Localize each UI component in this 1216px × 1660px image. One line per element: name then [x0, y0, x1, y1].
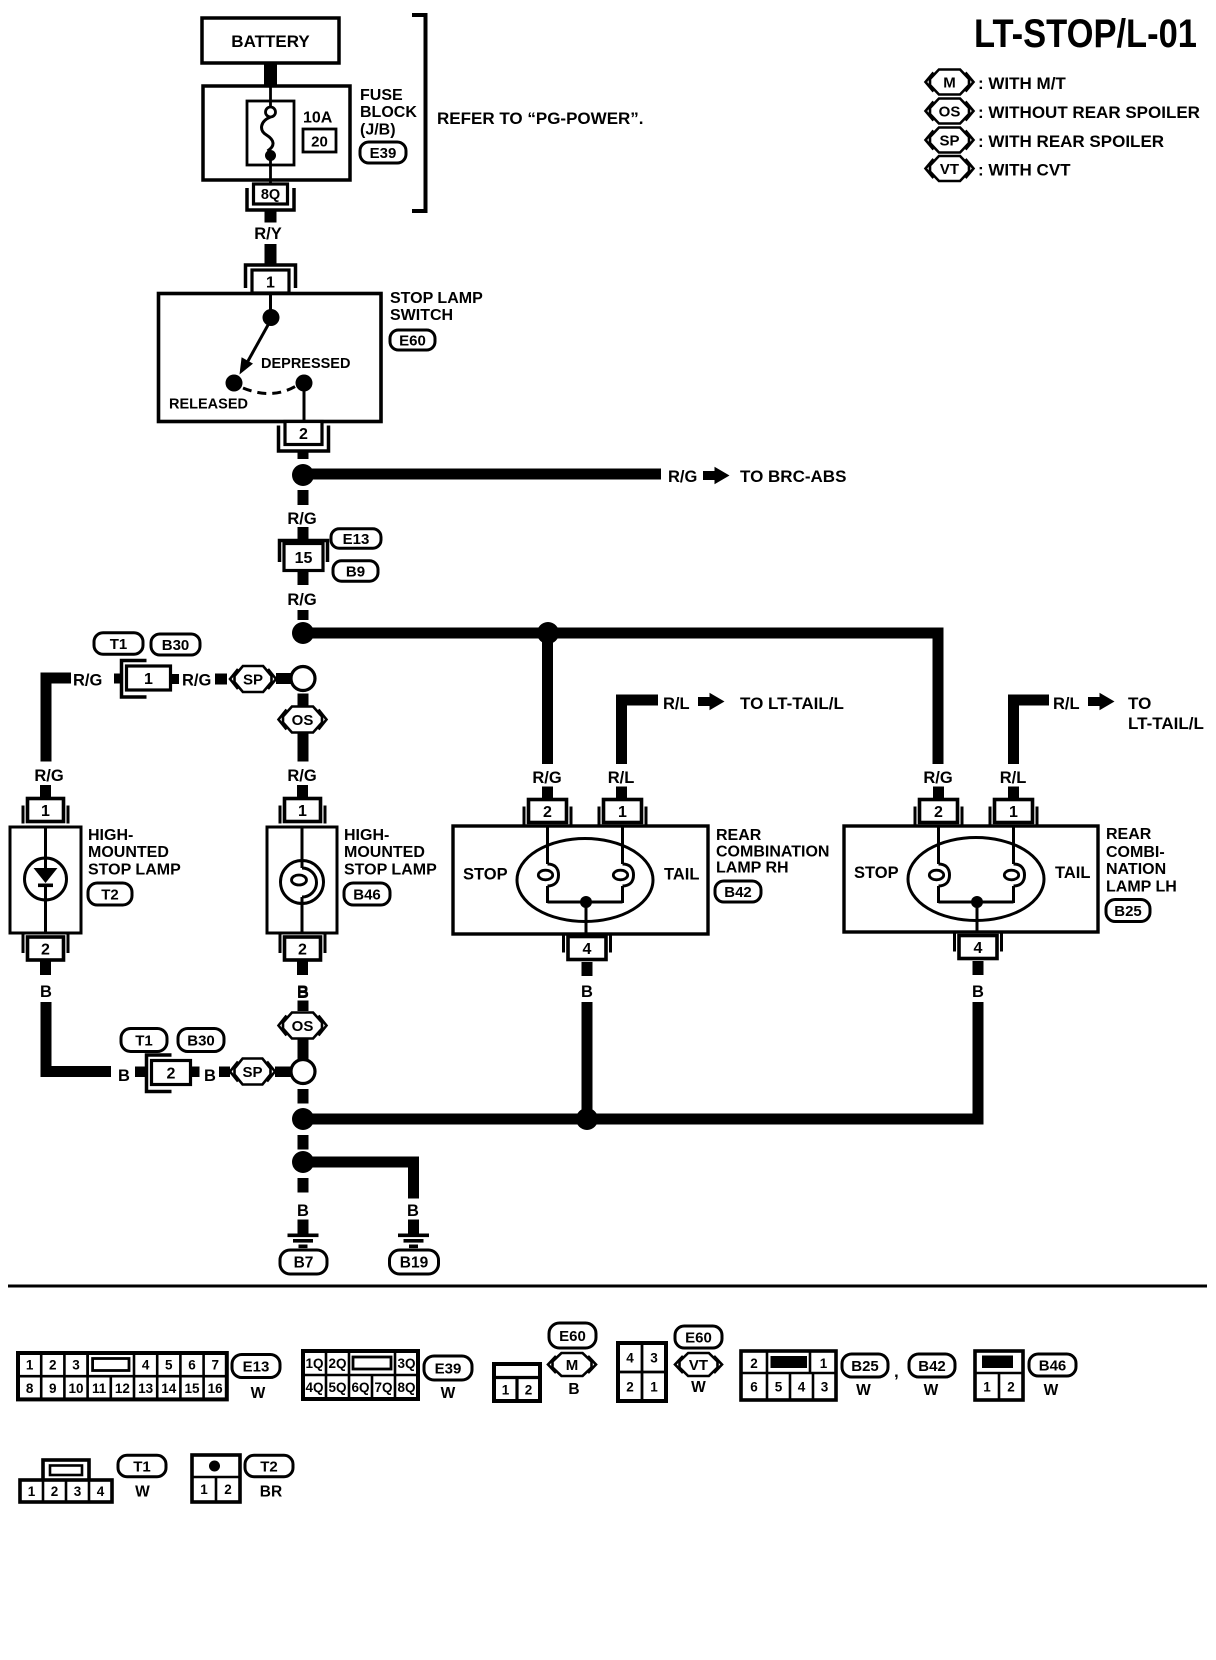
svg-text:14: 14: [161, 1381, 177, 1396]
svg-text:LT-TAIL/L: LT-TAIL/L: [1128, 714, 1204, 733]
switch arm arrow: [240, 325, 269, 375]
wire stub below: [297, 962, 308, 976]
svg-text:R/G: R/G: [287, 510, 316, 528]
legend symbol M: [926, 70, 1067, 95]
connector label B42 detail: [909, 1354, 955, 1377]
svg-text:4: 4: [626, 1351, 634, 1366]
svg-text:E60: E60: [685, 1329, 712, 1346]
svg-text:4: 4: [798, 1380, 806, 1395]
option symbol M: [553, 1353, 592, 1376]
svg-text:1: 1: [502, 1383, 510, 1398]
svg-text:7Q: 7Q: [374, 1380, 392, 1395]
connector label E39 detail: [424, 1356, 472, 1380]
connector label T2: [88, 883, 132, 905]
svg-text:1: 1: [28, 1484, 36, 1499]
high-mounted stop lamp T2 box: [10, 827, 81, 933]
wire stub: [542, 787, 553, 800]
wire nub: [114, 674, 122, 684]
svg-text:4: 4: [142, 1358, 150, 1373]
svg-text:B: B: [40, 983, 52, 1001]
legend symbol OS: [926, 99, 1200, 124]
switch dashed throw arc: [243, 386, 296, 394]
svg-text:4: 4: [974, 940, 983, 957]
svg-text:E60: E60: [399, 332, 426, 349]
svg-text:VT: VT: [689, 1357, 708, 1374]
svg-text:2: 2: [750, 1356, 758, 1371]
svg-text:FUSE: FUSE: [360, 87, 403, 104]
connector 8Q: [254, 184, 288, 204]
svg-text:STOP: STOP: [463, 866, 508, 884]
svg-text:T1: T1: [135, 1032, 153, 1049]
svg-text:TO LT-TAIL/L: TO LT-TAIL/L: [740, 694, 844, 713]
svg-text:1: 1: [1009, 804, 1018, 821]
svg-text:2: 2: [934, 804, 943, 821]
wire stub below 15: [298, 571, 309, 586]
wire nub: [219, 1067, 230, 1078]
svg-text:REAR: REAR: [716, 827, 762, 844]
svg-text:: WITH REAR SPOILER: : WITH REAR SPOILER: [978, 132, 1164, 151]
open junction circle SP/OS: [291, 667, 315, 691]
svg-text:B: B: [581, 983, 593, 1001]
svg-text:10A: 10A: [303, 110, 333, 127]
svg-text:OS: OS: [292, 1018, 314, 1035]
svg-text:1: 1: [820, 1356, 828, 1371]
svg-text:R/G: R/G: [182, 672, 211, 690]
option symbol SP: [235, 1059, 271, 1085]
ground label B19: [390, 1250, 439, 1274]
svg-text:R/G: R/G: [287, 767, 316, 785]
wire elbow from T2 lamp: [41, 1002, 112, 1077]
svg-text:,: ,: [894, 1362, 899, 1381]
connector label T1: [121, 1029, 167, 1052]
svg-text:1: 1: [144, 671, 153, 688]
svg-text:13: 13: [138, 1381, 154, 1396]
connector 2 high-mounted stop lamp T2: [22, 933, 25, 953]
svg-text:E39: E39: [435, 1360, 462, 1377]
svg-text:BR: BR: [260, 1484, 282, 1501]
svg-text:SP: SP: [242, 1064, 262, 1081]
wire dash: [298, 1135, 309, 1150]
svg-text:8: 8: [26, 1381, 34, 1396]
svg-text:W: W: [441, 1385, 456, 1402]
filament common wire: [548, 896, 623, 934]
LED diode symbol: [25, 827, 67, 933]
svg-text:COMBI-: COMBI-: [1106, 844, 1165, 861]
stop lamp switch E60 box: [159, 294, 382, 422]
wire branch to B19 ground: [303, 1157, 419, 1199]
svg-text:SP: SP: [939, 132, 959, 149]
wire elbow to left lamp: [41, 673, 72, 762]
svg-text:2: 2: [1007, 1380, 1015, 1395]
svg-text:11: 11: [92, 1381, 107, 1396]
svg-text:1: 1: [26, 1358, 34, 1373]
svg-text:T2: T2: [101, 886, 119, 903]
svg-text:OS: OS: [939, 103, 961, 120]
connector label T2 detail: [245, 1455, 293, 1477]
connector label T1 detail: [118, 1455, 166, 1477]
connector 2 stop lamp switch: [285, 422, 322, 445]
connector label E13: [331, 529, 381, 549]
wire dash: [298, 610, 309, 620]
tail filament: [621, 826, 624, 864]
connector label B30: [178, 1029, 224, 1052]
wire stub to stop lamp switch pin 1: [265, 244, 277, 265]
switch wire to pin 2: [303, 390, 306, 421]
high-mounted stop lamp B46 box: [267, 827, 337, 933]
connector label E60 detail: [549, 1323, 596, 1348]
svg-text:9: 9: [49, 1381, 57, 1396]
connector 1 stop lamp switch: [246, 265, 296, 288]
arrow to BRC-ABS: [703, 471, 715, 480]
svg-text:B: B: [568, 1381, 579, 1398]
connector label E60 detail: [675, 1326, 722, 1348]
svg-text:STOP LAMP: STOP LAMP: [88, 862, 181, 879]
wire nub circle to SP: [276, 673, 292, 684]
wire R/L elbow RH: [616, 695, 658, 765]
svg-text:B42: B42: [918, 1358, 946, 1375]
connector label E39: [360, 142, 406, 163]
connector label E13 detail: [232, 1355, 280, 1378]
wire stub below: [40, 962, 51, 976]
switch depressed contact: [296, 375, 313, 392]
stop filament: [546, 826, 549, 864]
svg-text:3: 3: [650, 1351, 658, 1366]
label FUSE BLOCK (J/B): [360, 87, 417, 139]
fuse number 20: [303, 129, 336, 152]
svg-text:LAMP RH: LAMP RH: [716, 860, 789, 877]
svg-text:6: 6: [750, 1380, 758, 1395]
svg-text:SWITCH: SWITCH: [390, 307, 453, 324]
svg-text:HIGH-: HIGH-: [88, 827, 133, 844]
junction node rear lamps: [537, 622, 559, 644]
svg-text:3: 3: [72, 1358, 80, 1373]
switch released contact: [226, 375, 243, 392]
svg-text:B: B: [972, 983, 984, 1001]
svg-text:R/L: R/L: [608, 769, 635, 787]
connector label B46 detail: [1029, 1354, 1076, 1376]
option symbol OS: [283, 1013, 322, 1039]
wire down to rear lamp RH: [542, 633, 553, 764]
svg-text:LAMP LH: LAMP LH: [1106, 879, 1177, 896]
svg-text:REFER TO “PG-POWER”.: REFER TO “PG-POWER”.: [437, 109, 644, 128]
svg-text:B: B: [297, 1202, 309, 1220]
wire stub below: [973, 961, 984, 975]
connector 1 rear combination lamp LH: [989, 807, 992, 825]
svg-text:T2: T2: [260, 1458, 278, 1475]
svg-text:12: 12: [115, 1381, 130, 1396]
svg-text:W: W: [691, 1379, 706, 1396]
stop filament: [937, 826, 940, 864]
wire stub below 8Q: [265, 211, 277, 223]
wire switch to junction: [298, 452, 309, 460]
svg-text:E60: E60: [559, 1328, 586, 1345]
svg-text:2: 2: [167, 1065, 176, 1082]
connector 2 rear combination lamp RH: [523, 807, 526, 825]
svg-text:B46: B46: [353, 886, 381, 903]
svg-text:7: 7: [211, 1358, 219, 1373]
connector detail E13: [18, 1353, 227, 1399]
svg-text:T1: T1: [110, 636, 128, 653]
connector 2 high-mounted stop lamp B46: [279, 933, 282, 953]
svg-text:R/L: R/L: [663, 695, 690, 713]
svg-text:B19: B19: [400, 1255, 429, 1272]
svg-text:8Q: 8Q: [261, 187, 280, 203]
svg-text:: WITH CVT: : WITH CVT: [978, 161, 1071, 180]
svg-text:2: 2: [224, 1482, 232, 1497]
wire stub: [298, 1039, 309, 1060]
connector detail B46: [975, 1351, 1023, 1400]
bulb socket ellipse: [517, 839, 653, 922]
svg-text:TAIL: TAIL: [664, 866, 699, 884]
legend symbol SP: [926, 128, 1165, 153]
svg-text:8Q: 8Q: [397, 1380, 415, 1395]
svg-text:2: 2: [49, 1358, 57, 1373]
connector detail E60 M/T: [494, 1364, 540, 1401]
connector label E60: [390, 330, 435, 350]
connector detail E60 CVT: [618, 1343, 666, 1401]
svg-text:B30: B30: [162, 637, 190, 654]
wire stub: [933, 787, 944, 800]
switch common contact: [263, 295, 280, 326]
svg-text:W: W: [856, 1382, 871, 1399]
svg-text:1: 1: [618, 804, 627, 821]
wire dash: [298, 490, 309, 505]
ground label B7: [280, 1250, 327, 1274]
wire stub: [297, 785, 308, 799]
svg-text:REAR: REAR: [1106, 826, 1152, 843]
svg-text:1: 1: [41, 803, 50, 820]
svg-text:TO: TO: [1128, 694, 1151, 713]
svg-text:1: 1: [266, 274, 275, 291]
svg-text:5: 5: [775, 1380, 783, 1395]
svg-text:(J/B): (J/B): [360, 122, 396, 139]
wire nub: [135, 1067, 145, 1078]
wire elbow down to rear lamp LH: [933, 633, 944, 764]
connector detail T1: [20, 1460, 112, 1502]
filament common wire: [939, 896, 1014, 932]
wire nub SP to R/G: [215, 674, 227, 685]
svg-text:20: 20: [311, 134, 328, 151]
label STOP LAMP SWITCH: [390, 290, 483, 324]
svg-text:R/L: R/L: [1053, 695, 1080, 713]
bracket refer to PG-POWER: [412, 15, 644, 211]
arrow to LT-TAIL/L: [1088, 697, 1100, 706]
label REAR COMBI-NATION LAMP LH: [1106, 826, 1177, 896]
legend symbol VT: [926, 156, 1072, 181]
svg-text:2: 2: [626, 1380, 634, 1395]
svg-text:B: B: [204, 1067, 216, 1085]
svg-text:B: B: [118, 1067, 130, 1085]
connector detail T2: [192, 1455, 240, 1502]
svg-text:15: 15: [295, 550, 313, 567]
svg-text:: WITH M/T: : WITH M/T: [978, 74, 1066, 93]
svg-text:W: W: [924, 1382, 939, 1399]
inline connector 2 T1/B30: [147, 1055, 172, 1092]
label HIGH-MOUNTED STOP LAMP: [344, 827, 437, 879]
ground symbol B7: [298, 1220, 309, 1235]
rear combination lamp LH box: [844, 826, 1098, 932]
svg-text:16: 16: [208, 1381, 224, 1396]
connector 1 high-mounted stop lamp B46: [279, 806, 282, 824]
svg-text:3: 3: [74, 1484, 82, 1499]
tail filament: [1012, 826, 1015, 864]
inline connector 1 T1/B30: [122, 661, 147, 698]
svg-text:B46: B46: [1039, 1357, 1067, 1374]
ground symbol B19: [408, 1220, 419, 1235]
svg-text:1: 1: [650, 1380, 658, 1395]
svg-text:R/G: R/G: [923, 769, 952, 787]
arrow to LT-TAIL/L: [698, 697, 710, 706]
svg-text:E39: E39: [370, 145, 397, 162]
label HIGH-MOUNTED STOP LAMP: [88, 827, 181, 879]
svg-text:TAIL: TAIL: [1055, 864, 1090, 882]
wire branch to BRC-ABS: [308, 469, 661, 480]
connector 2 rear combination lamp LH: [914, 807, 917, 825]
wire stub: [298, 527, 309, 541]
fuse 10A 20: [247, 88, 294, 185]
svg-text:W: W: [1044, 1382, 1059, 1399]
svg-text:BATTERY: BATTERY: [231, 32, 310, 51]
svg-text:B25: B25: [1114, 903, 1142, 920]
svg-text:2: 2: [299, 426, 308, 443]
junction node B19 branch: [292, 1151, 314, 1173]
svg-text:4Q: 4Q: [305, 1380, 323, 1395]
wire stub: [40, 785, 51, 799]
option symbol OS: [283, 707, 322, 733]
svg-text:2: 2: [525, 1383, 533, 1398]
bulb symbol: [281, 827, 324, 933]
wire dash: [298, 1178, 309, 1193]
connector 4 rear combination lamp RH: [562, 933, 565, 953]
wire stub: [1008, 787, 1019, 800]
wire battery to fuse block: [264, 63, 277, 86]
svg-text:W: W: [251, 1385, 266, 1402]
svg-text:B: B: [407, 1202, 419, 1220]
separator line: [8, 1285, 1207, 1288]
svg-text:COMBINATION: COMBINATION: [716, 844, 829, 861]
label REAR COMBINATION LAMP RH: [716, 827, 829, 877]
svg-text:NATION: NATION: [1106, 861, 1166, 878]
connector 15 E13/B9: [280, 541, 328, 571]
svg-text:STOP: STOP: [854, 864, 899, 882]
svg-text:SP: SP: [243, 671, 263, 688]
connector label B30: [151, 634, 200, 655]
connector 1 rear combination lamp RH: [598, 807, 601, 825]
svg-text:B25: B25: [851, 1358, 879, 1375]
svg-text:R/G: R/G: [287, 591, 316, 609]
option symbol SP: [235, 666, 272, 692]
battery: [202, 18, 339, 63]
svg-text:15: 15: [184, 1381, 200, 1396]
connector detail B25/B42: [741, 1351, 836, 1400]
svg-text:1: 1: [298, 803, 307, 820]
svg-text:R/L: R/L: [1000, 769, 1027, 787]
svg-text:3: 3: [821, 1380, 829, 1395]
svg-text:LT-STOP/L-01: LT-STOP/L-01: [974, 12, 1197, 56]
svg-text:5Q: 5Q: [328, 1380, 346, 1395]
svg-text:R/G: R/G: [668, 468, 697, 486]
svg-text:RELEASED: RELEASED: [169, 397, 248, 413]
svg-text:R/G: R/G: [34, 767, 63, 785]
svg-text:: WITHOUT REAR SPOILER: : WITHOUT REAR SPOILER: [978, 103, 1200, 122]
svg-text:STOP LAMP: STOP LAMP: [390, 290, 483, 307]
svg-text:1Q: 1Q: [305, 1356, 323, 1371]
wire nub: [275, 1067, 292, 1078]
svg-text:STOP LAMP: STOP LAMP: [344, 862, 437, 879]
svg-text:1: 1: [983, 1380, 991, 1395]
wire rear lamp RH ground drop: [582, 1002, 593, 1114]
svg-text:MOUNTED: MOUNTED: [88, 844, 169, 861]
wire dash: [298, 1089, 309, 1104]
wire main horizontal run: [303, 628, 944, 639]
svg-text:4: 4: [97, 1484, 105, 1499]
junction node ground main: [292, 1108, 314, 1130]
connector 4 rear combination lamp LH: [953, 932, 956, 952]
svg-text:T1: T1: [133, 1458, 151, 1475]
svg-text:2: 2: [51, 1484, 59, 1499]
svg-text:DEPRESSED: DEPRESSED: [261, 356, 350, 372]
wire stub below: [582, 962, 593, 976]
svg-text:2: 2: [41, 941, 50, 958]
svg-text:E13: E13: [343, 531, 370, 548]
svg-text:B7: B7: [294, 1255, 314, 1272]
junction node brc-abs: [292, 464, 314, 486]
svg-text:B9: B9: [346, 563, 365, 580]
svg-text:BLOCK: BLOCK: [360, 104, 417, 121]
svg-text:2Q: 2Q: [328, 1356, 346, 1371]
svg-text:E13: E13: [243, 1358, 270, 1375]
svg-text:B: B: [297, 984, 309, 1002]
svg-text:MOUNTED: MOUNTED: [344, 844, 425, 861]
svg-text:M: M: [566, 1357, 579, 1374]
rear combination lamp RH box: [453, 826, 708, 934]
svg-text:VT: VT: [940, 161, 959, 178]
wire nub: [191, 1067, 200, 1078]
connector label B9: [333, 561, 378, 582]
connector label B42: [715, 881, 761, 902]
svg-text:OS: OS: [292, 712, 314, 729]
svg-text:3Q: 3Q: [397, 1356, 415, 1371]
junction node rear lamp grounds: [576, 1108, 598, 1130]
connector label B25 detail: [842, 1354, 888, 1377]
connector label B46: [344, 883, 390, 905]
svg-text:R/G: R/G: [73, 672, 102, 690]
svg-text:B30: B30: [187, 1032, 215, 1049]
open junction circle ground: [291, 1060, 315, 1084]
svg-text:B42: B42: [724, 884, 752, 901]
svg-text:2: 2: [298, 941, 307, 958]
svg-text:R/G: R/G: [532, 769, 561, 787]
svg-text:M: M: [943, 74, 956, 91]
wire dash circle to OS: [298, 694, 309, 707]
svg-text:W: W: [135, 1484, 150, 1501]
svg-text:1: 1: [200, 1482, 208, 1497]
svg-text:5: 5: [165, 1358, 173, 1373]
connector detail E39: [303, 1351, 418, 1399]
svg-text:2: 2: [543, 804, 552, 821]
option symbol VT: [680, 1353, 718, 1376]
wire OS down: [298, 732, 309, 762]
svg-text:R/Y: R/Y: [254, 225, 282, 243]
svg-text:HIGH-: HIGH-: [344, 827, 389, 844]
svg-text:10: 10: [68, 1381, 83, 1396]
connector 1 high-mounted stop lamp T2: [22, 806, 25, 824]
connector label B25: [1106, 900, 1150, 922]
wire R/L elbow LH: [1008, 695, 1049, 765]
wire nub: [171, 674, 179, 684]
label TO LT-TAIL/L: [1128, 694, 1204, 733]
svg-text:6Q: 6Q: [351, 1380, 369, 1395]
